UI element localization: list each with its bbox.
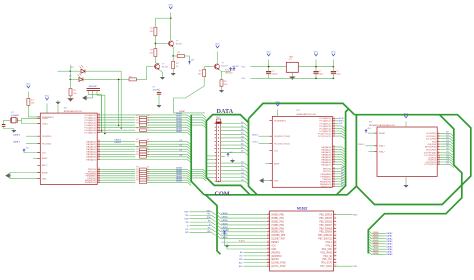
resistor R2: [154, 49, 157, 57]
svg-text:R?: R?: [136, 142, 139, 144]
svg-text:DATA 7: DATA 7: [13, 141, 21, 144]
resistor array R y=151.76: [140, 151, 147, 154]
wire T3 base from R6: [204, 66, 213, 68]
svg-text:9: 9: [334, 230, 335, 232]
svg-text:VCC: VCC: [215, 44, 220, 46]
resistor array R y=130.14: [140, 129, 147, 132]
node reg input junction: [268, 66, 270, 68]
svg-text:22k: 22k: [149, 31, 153, 33]
ground arrow (MCU): [6, 173, 12, 177]
svg-text:GND:0V: GND:0V: [225, 72, 233, 74]
wire channel vertical v1 (resonator): [101, 95, 103, 131]
power VCC symbol (IC2): [276, 104, 279, 106]
ground arrow (MCU top): [56, 100, 60, 104]
svg-text:(SCK)PB7: (SCK)PB7: [426, 149, 437, 151]
op-amp IC1 ATMEGA8535 box: [40, 113, 97, 184]
wire XTAL2: [369, 151, 375, 153]
svg-text:R?: R?: [178, 52, 181, 54]
svg-text:18: 18: [267, 261, 269, 263]
svg-text:10: 10: [267, 234, 269, 236]
power VCC symbol (IC3): [404, 116, 407, 118]
svg-text:PB6(MISO): PB6(MISO): [85, 182, 96, 184]
svg-text:(SS)PB4: (SS)PB4: [427, 144, 436, 146]
svg-text:10: 10: [334, 234, 336, 236]
svg-text:(4)DB0_PB0: (4)DB0_PB0: [271, 215, 284, 217]
pin RESET IC3: [374, 132, 377, 134]
svg-text:PD0(RXD): PD0(RXD): [42, 136, 52, 138]
svg-text:IC?: IC?: [297, 110, 301, 112]
svg-text:DATA6: DATA6: [386, 248, 393, 251]
svg-text:XTAL1: XTAL1: [325, 241, 332, 244]
svg-text:RXD: RXD: [207, 210, 212, 212]
svg-text:T?: T?: [162, 64, 165, 66]
wire MCU row y=151.76: [100, 151, 135, 153]
wire MCU row y=171.47: [100, 170, 135, 172]
wire C2 to gnd: [4, 126, 14, 128]
capacitor C2 (xtal): [2, 125, 6, 127]
wire MCU row y=114.9: [100, 115, 191, 118]
svg-text:DATA8: DATA8: [373, 252, 379, 255]
resistor array R y=141.6: [140, 140, 147, 143]
resistor array R y=144.14: [140, 143, 147, 146]
wire T3 emitter right: [219, 70, 226, 72]
wire T2 emitter to ground: [159, 70, 162, 76]
svg-text:PD5_(T1): PD5_(T1): [322, 259, 332, 261]
svg-text:DATA5: DATA5: [373, 244, 379, 247]
svg-text:AVCC: AVCC: [42, 164, 48, 167]
svg-text:R?: R?: [136, 180, 139, 182]
svg-text:+5V: +5V: [367, 128, 371, 130]
wire DATA7 to MCU: [26, 142, 40, 144]
resistor array R y=175.81: [140, 175, 147, 178]
wire regulator bottom rail: [251, 77, 334, 79]
svg-text:T?: T?: [222, 63, 225, 65]
wire LCD right row16 to label: [336, 265, 352, 267]
svg-text:44: 44: [98, 181, 100, 183]
svg-text:VCC: VCC: [26, 84, 31, 86]
wire regulator gnd pin: [291, 72, 293, 76]
svg-text:IC?: IC?: [369, 122, 373, 124]
wires LCD control rows: [244, 251, 268, 253]
ground symbol (R4): [171, 72, 175, 76]
svg-text:1k: 1k: [147, 122, 149, 124]
ground arrow (connector): [230, 159, 234, 163]
bus branch down to LCD area: [206, 195, 221, 254]
wire row crossing to DATA ring bus: [191, 120, 206, 123]
svg-text:(OTXD)PD1: (OTXD)PD1: [424, 164, 437, 166]
svg-text:DATA 5: DATA 5: [115, 141, 122, 144]
wire R8 to ground triangle: [70, 96, 72, 98]
svg-text:PB0_(DB0)4: PB0_(DB0)4: [319, 215, 332, 217]
svg-text:3: 3: [438, 137, 439, 139]
svg-text:AREF: AREF: [42, 157, 48, 160]
power VCC symbol (C5): [332, 54, 335, 56]
svg-text:ATMEGA8535P-DIL: ATMEGA8535P-DIL: [64, 110, 83, 113]
resistor R9 10k: [27, 98, 30, 105]
svg-text:2: 2: [438, 135, 439, 137]
svg-text:GND: GND: [271, 249, 276, 251]
svg-text:DATA: DATA: [217, 108, 234, 115]
svg-text:PC1(ADC1): PC1(ADC1): [84, 116, 96, 119]
svg-text:PD1(TXD,TXD0)1: PD1(TXD,TXD0)1: [274, 143, 291, 145]
svg-text:+5V: +5V: [235, 66, 239, 68]
svg-text:R?: R?: [136, 122, 139, 124]
svg-text:A15: A15: [239, 265, 243, 268]
wire RXD1 to IC2: [259, 135, 270, 137]
wire row to bus: [147, 152, 192, 155]
svg-text:DATA2: DATA2: [222, 219, 229, 222]
svg-text:DATA1: DATA1: [222, 215, 229, 218]
svg-text:3.6864M: 3.6864M: [11, 115, 19, 117]
svg-text:D?: D?: [69, 76, 72, 78]
resistor R5: [129, 78, 136, 81]
svg-text:16: 16: [334, 254, 336, 256]
power +5V (IC3 reset): [365, 128, 371, 133]
svg-text:7: 7: [268, 223, 269, 225]
svg-text:DATA3: DATA3: [176, 120, 183, 123]
svg-text:7: 7: [334, 223, 335, 225]
power VCC symbol (AVCC): [45, 98, 48, 100]
wire RD to COM branch bus: [190, 228, 212, 230]
svg-text:TXD: TXD: [353, 266, 358, 268]
node D2 left junction: [69, 79, 71, 81]
node junction T1 collector net: [170, 17, 172, 19]
wire row to bus: [147, 123, 192, 126]
svg-text:PC3(ADC3): PC3(ADC3): [319, 125, 331, 128]
wire R4 to ground: [172, 69, 174, 72]
wire row to bus: [147, 180, 192, 183]
wire row to bus: [147, 144, 192, 147]
svg-text:12: 12: [334, 241, 336, 243]
wire MCU row y=144.14: [100, 143, 135, 145]
svg-text:SCK: SCK: [339, 123, 344, 125]
wire MCU row y=180.15: [100, 179, 135, 181]
resistor array R y=156.84: [140, 156, 147, 159]
wire row to bus: [147, 130, 192, 133]
svg-text:PD6(RESET): PD6(RESET): [274, 121, 286, 123]
wire MCU row y=127.6: [100, 128, 191, 131]
svg-text:PA3(AD3): PA3(AD3): [86, 148, 96, 151]
svg-text:45: 45: [333, 185, 335, 187]
transistor T3 BC547: [214, 64, 219, 69]
svg-text:R?: R?: [176, 63, 179, 65]
wire MCU row y=177.98: [100, 177, 135, 179]
ground symbol (C1): [157, 104, 161, 108]
svg-text:PB3_(DB3)7: PB3_(DB3)7: [319, 225, 332, 227]
svg-text:6: 6: [438, 145, 439, 147]
wire TXD1 to IC2: [259, 142, 270, 144]
svg-text:15: 15: [267, 251, 269, 253]
svg-text:XTAL2: XTAL2: [42, 117, 49, 120]
svg-text:DATA 4: DATA 4: [115, 139, 122, 142]
svg-text:DATA5: DATA5: [176, 125, 183, 128]
svg-text:R?: R?: [73, 90, 76, 92]
svg-text:VCC: VCC: [274, 151, 279, 153]
svg-text:BC547: BC547: [162, 66, 169, 68]
wire row to bus: [147, 171, 192, 174]
svg-text:100n: 100n: [336, 74, 340, 76]
capacitor C4 100n: [313, 71, 318, 73]
wire row crossing to DATA ring bus: [191, 178, 206, 181]
wire MCU row y=169.3: [100, 168, 135, 170]
wire XTAL wires to MCU: [22, 117, 41, 119]
svg-text:1k: 1k: [176, 66, 179, 68]
wire row to bus: [147, 169, 192, 172]
svg-text:XTAL,1: XTAL,1: [358, 143, 365, 146]
resistor array R y=117.44: [140, 116, 147, 119]
resistor array R y=169.3: [140, 168, 147, 171]
bus middle octagon left: [249, 119, 258, 195]
svg-text:BC547: BC547: [176, 43, 183, 45]
svg-text:A14: A14: [239, 262, 243, 265]
capacitor C3 elco: [266, 71, 271, 73]
wire R2 bottom to T2 collector: [154, 57, 156, 64]
wire regulator output rail: [298, 66, 333, 68]
svg-text:(MOSI)PB5: (MOSI)PB5: [425, 147, 437, 149]
svg-text:(1)GND_POW: (1)GND_POW: [271, 263, 286, 265]
op-amp IC3 MEGA8515 box: [377, 127, 437, 176]
svg-text:DATA2: DATA2: [373, 236, 379, 239]
svg-text:VCC: VCC: [271, 245, 276, 247]
svg-text:VCC: VCC: [169, 5, 174, 7]
svg-text:7: 7: [438, 148, 439, 150]
wire XTAL1: [366, 145, 375, 147]
wires IC2 right group C: [335, 165, 346, 169]
svg-text:PB6_(DB6)10: PB6_(DB6)10: [318, 235, 333, 237]
svg-text:PB1_(DB1)5: PB1_(DB1)5: [319, 218, 332, 220]
svg-text:(10)DB6_PB6: (10)DB6_PB6: [271, 235, 286, 237]
svg-text:R?: R?: [31, 100, 34, 102]
wire regulator input rail: [251, 66, 287, 68]
svg-text:4: 4: [268, 213, 269, 215]
svg-text:IC?: IC?: [64, 107, 68, 109]
svg-text:100nF: 100nF: [153, 89, 160, 91]
svg-text:RS: RS: [186, 222, 189, 224]
wire D1 anode left: [70, 70, 81, 72]
resistor R1: [154, 27, 157, 36]
wire T2 collector to R2 bottom node: [155, 62, 159, 64]
svg-text:AREF: AREF: [274, 163, 280, 166]
svg-text:VI:-I: VI:-I: [242, 66, 246, 68]
svg-text:17: 17: [267, 258, 269, 260]
wire MCU row y=119.98: [100, 119, 135, 121]
svg-text:OC1(PB1): OC1(PB1): [426, 136, 436, 138]
wire row to bus: [147, 149, 192, 152]
wire C1 bottom to ground: [158, 94, 160, 103]
power +5V (LCD): [223, 230, 229, 235]
svg-text:OC0(PB0): OC0(PB0): [426, 133, 436, 135]
wire DATA6 to MCU: [26, 135, 40, 137]
wire D1 cathode right to channel v4: [85, 71, 121, 128]
wire T1 emitter to node: [172, 47, 174, 56]
svg-text:DATA0: DATA0: [373, 231, 379, 234]
svg-text:TXD: TXD: [207, 214, 211, 216]
wire C3 top/bottom: [268, 67, 270, 72]
svg-text:16: 16: [267, 254, 269, 256]
svg-text:PC4(ADC4): PC4(ADC4): [84, 124, 96, 127]
svg-text:VCC: VCC: [266, 52, 271, 54]
svg-text:6: 6: [268, 220, 269, 222]
resistor array R y=182.32: [140, 181, 147, 184]
wire row crossing to DATA ring bus: [191, 174, 206, 177]
wire MCU row y=149.22: [100, 148, 135, 150]
wires connector right side to ring bus: [221, 124, 249, 127]
svg-text:10k: 10k: [73, 93, 77, 95]
node base divider junction: [155, 43, 157, 45]
svg-text:DATA4: DATA4: [386, 243, 393, 246]
resistor R4: [172, 61, 175, 68]
svg-text:R?: R?: [199, 71, 202, 73]
svg-text:PB5_(DB5)9: PB5_(DB5)9: [319, 232, 332, 234]
pin stubs IC4 right: [334, 214, 337, 216]
svg-text:+5V: +5V: [25, 148, 29, 150]
resistor array R y=149.22: [140, 148, 147, 151]
wire VCC to R9: [27, 92, 29, 99]
svg-text:11: 11: [334, 237, 336, 239]
wire diode common vertical: [69, 65, 71, 88]
svg-text:11: 11: [267, 237, 269, 239]
wires bottom-right DATA0-8 from bus: [368, 231, 386, 234]
resistor R3: [177, 55, 184, 58]
svg-text:VCC:+5V: VCC:+5V: [225, 70, 234, 72]
svg-text:DATA6: DATA6: [373, 247, 379, 250]
svg-text:PA7(AD7): PA7(AD7): [321, 163, 331, 166]
power VCC symbol (reset): [27, 86, 30, 88]
pin stubs IC3 right: [437, 132, 440, 134]
node T1 emitter junction: [172, 55, 174, 57]
wire resonator pins: [88, 91, 101, 131]
wire VCC to junction: [170, 13, 172, 19]
svg-text:19: 19: [334, 265, 336, 267]
wire TXD to COM branch bus: [190, 214, 212, 216]
svg-text:6: 6: [334, 220, 335, 222]
ground arrow (resonator): [83, 96, 89, 100]
svg-text:DATA6: DATA6: [222, 233, 229, 236]
wire +5V to MCU: [24, 152, 40, 154]
bus COM horizontal: [204, 186, 356, 195]
svg-text:RXD,1: RXD,1: [252, 134, 259, 136]
wires IC3 right group A to bus: [440, 133, 454, 136]
svg-text:RXD: RXD: [184, 212, 189, 214]
svg-text:AGND: AGND: [42, 171, 48, 174]
svg-text:100n: 100n: [319, 74, 323, 76]
wire R3 to +5V: [184, 56, 189, 61]
wire MCU row y=156.84: [100, 156, 135, 158]
wire MCU AVCC up: [46, 104, 48, 114]
bus inner right: [368, 115, 462, 254]
wire R1 top: [154, 18, 156, 26]
svg-text:DATA8: DATA8: [386, 253, 393, 256]
svg-text:(5)DB1_PB1: (5)DB1_PB1: [271, 218, 284, 220]
bus middle right vertical: [337, 109, 349, 195]
wire reset to symbol: [368, 132, 374, 134]
wire emitter node to R3: [173, 55, 177, 57]
wire R1 to R2: [154, 36, 156, 49]
svg-text:(6)DB2_PB2: (6)DB2_PB2: [271, 221, 284, 223]
svg-text:18: 18: [334, 261, 336, 263]
resistor array R y=173.64: [140, 172, 147, 175]
ground arrow (IC3): [404, 184, 408, 188]
wire VCC to IC2: [277, 110, 279, 117]
svg-text:DATA4: DATA4: [373, 241, 379, 244]
svg-text:E: E: [187, 225, 189, 227]
svg-text:+5V: +5V: [226, 230, 230, 232]
wire row crossing to DATA ring bus: [191, 115, 206, 118]
resistor R8 (diode pulldown): [69, 89, 72, 96]
pin stubs IC1 right: [97, 114, 100, 116]
wire row to bus: [147, 174, 192, 177]
wire MCU row y=125.06: [100, 124, 135, 126]
wire XTAL1: [4, 120, 11, 124]
wires connector left from ring: [206, 155, 214, 157]
wire junction to R divider: [155, 17, 170, 19]
svg-text:VCC: VCC: [331, 52, 336, 54]
node channel v4: [120, 127, 122, 129]
svg-text:XTAL2: XTAL2: [379, 150, 386, 153]
svg-text:MEGA8515/ATMEGA161-DIL: MEGA8515/ATMEGA161-DIL: [369, 124, 396, 127]
svg-text:DATA7: DATA7: [222, 236, 229, 239]
svg-text:DATA5: DATA5: [386, 245, 393, 248]
svg-text:DATA3: DATA3: [222, 222, 229, 225]
display IC4 M1632 box: [270, 211, 334, 271]
wire LCD row 9 E(RL): [221, 241, 267, 243]
svg-text:PC7(ADC7): PC7(ADC7): [84, 132, 96, 135]
power +5V symbol (connector): [227, 152, 233, 157]
wire R9 to RESET pin: [28, 105, 40, 117]
svg-text:ATMEGA8535-16-DIL: ATMEGA8535-16-DIL: [297, 113, 318, 116]
svg-text:(RS)PD2: (RS)PD2: [271, 252, 281, 254]
svg-text:RESET: RESET: [271, 242, 279, 244]
svg-text:PD4_(E): PD4_(E): [323, 256, 332, 258]
transistor T1 BC547: [168, 41, 173, 46]
power VCC symbol (T3): [216, 46, 219, 48]
wire R7 to ground: [221, 86, 223, 88]
wire MCU row y=132.68: [100, 133, 191, 136]
svg-text:(11)DB7_PB7: (11)DB7_PB7: [271, 239, 285, 241]
wires LCD data rows from bus: [217, 211, 234, 214]
svg-text:VCC: VCC: [42, 152, 47, 154]
svg-text:VCC: VCC: [404, 114, 409, 116]
svg-text:DATA7: DATA7: [373, 249, 379, 252]
svg-text:DATA4: DATA4: [222, 226, 229, 229]
wire R6 bottom to DATA bus area: [174, 77, 206, 113]
svg-text:TXD: TXD: [185, 215, 190, 217]
ground arrow (IC2 gnd): [260, 178, 266, 182]
wire MCU top gnd: [57, 105, 59, 114]
wire MCU row y=159.38: [100, 159, 191, 162]
wire D2 anode left: [70, 78, 79, 80]
ground symbol (R7): [219, 89, 223, 93]
svg-text:PB4_(DB4)8: PB4_(DB4)8: [319, 228, 332, 230]
pin stubs IC4 left: [267, 214, 270, 216]
svg-text:RXD: RXD: [353, 214, 358, 216]
node D1 left junction: [69, 70, 71, 72]
svg-text:(R/W)PD3: (R/W)PD3: [271, 256, 282, 258]
svg-text:RD: RD: [186, 229, 189, 231]
wire row to bus: [147, 117, 192, 120]
ground symbol (regulator): [290, 77, 295, 80]
svg-text:RD: RD: [240, 256, 243, 258]
svg-text:4: 4: [334, 213, 335, 215]
wire IC2 aref stub: [266, 163, 270, 165]
svg-text:1k: 1k: [147, 128, 149, 130]
svg-text:PB7_(DB7)11: PB7_(DB7)11: [318, 239, 332, 241]
wire MCU row y=154.3: [100, 153, 135, 155]
pin stubs IC1 left: [37, 116, 40, 118]
wire E to COM branch bus: [190, 225, 212, 227]
bus middle octagon top: [249, 103, 355, 118]
svg-text:12: 12: [267, 241, 269, 243]
